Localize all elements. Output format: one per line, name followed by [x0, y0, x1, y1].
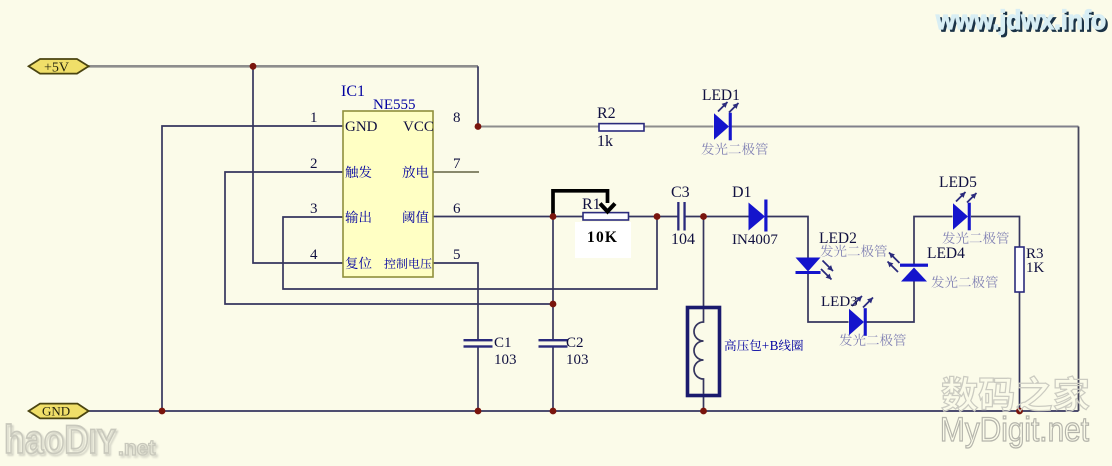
wire node to transformer	[703, 217, 705, 308]
LED4 designator	[927, 245, 965, 262]
svg-text:.net: .net	[118, 437, 155, 460]
pin number 1	[310, 110, 318, 126]
svg-text:7: 7	[453, 156, 461, 172]
svg-text:103: 103	[566, 352, 589, 368]
transformer high voltage coil box	[688, 308, 720, 396]
pin stub 7 discharge (unconnected)	[433, 171, 479, 173]
junction node J7	[159, 408, 166, 415]
pin label output	[345, 211, 371, 224]
LED LED5 symbol with arrows	[953, 192, 977, 230]
LED4 chinese label	[931, 276, 998, 289]
R2 designator	[597, 105, 616, 122]
D1 value IN4007	[732, 232, 778, 248]
C2 designator	[566, 335, 584, 351]
junction node J2	[475, 123, 482, 130]
pin number 2	[310, 156, 318, 172]
svg-text:MyDigit.net: MyDigit.net	[940, 411, 1089, 449]
IC1 designator label	[341, 83, 365, 100]
junction node J8	[475, 408, 482, 415]
wire pin1 GND to ground rail	[162, 126, 343, 411]
C3 value 104	[671, 231, 695, 248]
wire pin3 output	[283, 217, 657, 289]
potentiometer R1 body	[583, 213, 629, 220]
svg-text:104: 104	[671, 231, 695, 248]
C1 value 103	[494, 352, 517, 368]
power flag +5V	[29, 59, 89, 76]
pin label reset	[346, 257, 372, 269]
resistor R3 body	[1015, 247, 1024, 292]
pin label threshold	[403, 211, 428, 223]
svg-text:2: 2	[310, 156, 318, 172]
watermark MyDigit.net outline	[940, 411, 1089, 449]
wire pin6 threshold to R1	[433, 216, 583, 218]
svg-text:103: 103	[494, 352, 517, 368]
C2 value 103	[566, 352, 589, 368]
R3 value 1K	[1026, 260, 1045, 276]
NE555 part label	[373, 97, 416, 113]
LED LED3 symbol with arrows	[849, 296, 873, 336]
junction node J4	[654, 213, 661, 220]
wire D1 to LED2	[767, 217, 809, 259]
svg-text:5: 5	[453, 247, 461, 263]
svg-text:B: B	[770, 338, 779, 353]
transformer label	[725, 338, 803, 353]
pin label VCC	[403, 119, 434, 135]
svg-text:IC1: IC1	[341, 83, 365, 100]
wire R3 to ground rail	[1019, 292, 1021, 411]
LED2 chinese label	[820, 245, 887, 258]
LED LED2 symbol with arrows	[796, 258, 834, 280]
svg-text:C2: C2	[566, 335, 584, 351]
IC IC1 NE555 timer body	[343, 111, 433, 277]
svg-text:LED4: LED4	[927, 245, 965, 262]
LED3 chinese label	[839, 334, 906, 347]
white patch behind 10K	[575, 222, 631, 258]
svg-text:IN4007: IN4007	[732, 232, 778, 248]
junction node J3	[550, 213, 557, 220]
pin label trigger	[346, 166, 372, 179]
wire pin5 control voltage to C1	[433, 263, 478, 339]
diode D1	[749, 200, 768, 232]
svg-text:VCC: VCC	[403, 119, 434, 135]
watermark shuma zhijia outline	[942, 376, 1089, 412]
capacitor C2 plates	[539, 339, 568, 348]
watermark haoDIY.net outline	[4, 418, 155, 462]
pin number 5	[453, 247, 461, 263]
LED LED4 symbol with arrows	[888, 253, 929, 282]
R1 designator	[582, 196, 601, 213]
wire pin2 trigger	[225, 172, 553, 304]
wire ground rail	[88, 410, 1079, 412]
svg-text:GND: GND	[345, 119, 378, 135]
capacitor C3 plates	[677, 202, 686, 231]
LED LED1 symbol with arrows	[714, 102, 739, 140]
wire LED5 to R3	[971, 217, 1020, 248]
LED1 designator	[702, 87, 740, 104]
svg-text:R1: R1	[582, 196, 601, 213]
pin label GND	[345, 119, 378, 135]
D1 designator	[732, 184, 752, 201]
svg-text:C1: C1	[494, 335, 512, 351]
LED3 designator	[821, 294, 858, 310]
svg-text:R2: R2	[597, 105, 616, 122]
junction node J6	[550, 301, 557, 308]
junction node J1	[250, 63, 257, 70]
wire LED1 row to right edge	[732, 126, 1079, 128]
svg-text:3: 3	[310, 201, 318, 217]
svg-text:1k: 1k	[597, 133, 613, 150]
junction node J11	[1016, 408, 1023, 415]
svg-text:haoDIY: haoDIY	[4, 418, 116, 462]
wire LED2 to LED3	[808, 274, 849, 322]
LED5 chinese label	[942, 232, 1009, 245]
wire R1 to C3	[629, 216, 678, 218]
resistor R2 body	[599, 124, 644, 131]
R1 wiper thick bracket with arrow	[553, 191, 615, 217]
junction node J10	[700, 408, 707, 415]
svg-text:GND: GND	[42, 404, 70, 419]
junction node J5	[700, 213, 707, 220]
watermark www.jdwx.info	[935, 5, 1108, 37]
pin label discharge	[403, 166, 429, 178]
R1 value 10K	[587, 229, 618, 246]
svg-text:1: 1	[310, 110, 318, 126]
wire C2 to ground rail	[552, 347, 554, 411]
wire right edge down to ground rail	[1078, 127, 1080, 412]
pin number 4	[310, 247, 318, 263]
wire +5V down to pin 8	[477, 66, 479, 126]
LED2 designator	[819, 230, 857, 247]
svg-text:1K: 1K	[1026, 260, 1045, 276]
svg-text:NE555: NE555	[373, 97, 416, 113]
pin number 6	[453, 201, 461, 217]
svg-text:www.jdwx.info: www.jdwx.info	[935, 5, 1106, 35]
pin number 3	[310, 201, 318, 217]
C1 designator	[494, 335, 512, 351]
wire LED4 to LED5	[914, 217, 953, 265]
svg-text:6: 6	[453, 201, 461, 217]
wire +5V rail	[88, 65, 478, 68]
svg-text:C3: C3	[671, 184, 690, 201]
svg-text:4: 4	[310, 247, 318, 263]
pin number 8	[453, 110, 461, 126]
wire LED3 to LED4	[867, 281, 915, 322]
capacitor C1 plates	[464, 339, 493, 348]
LED1 chinese label	[701, 143, 768, 156]
wire pin4 reset to +5V rail	[253, 66, 343, 263]
svg-text:10K: 10K	[587, 229, 618, 246]
svg-text:D1: D1	[732, 184, 752, 201]
svg-text:+: +	[762, 338, 769, 353]
wire transformer to ground rail	[703, 396, 705, 411]
svg-text:LED5: LED5	[939, 174, 977, 191]
svg-text:LED2: LED2	[819, 230, 857, 247]
LED5 designator	[939, 174, 977, 191]
R3 designator	[1026, 246, 1044, 262]
C3 designator	[671, 184, 690, 201]
wire R1 junction down to C2	[552, 217, 554, 340]
wire R2 to LED1	[644, 126, 714, 128]
svg-text:LED3: LED3	[821, 294, 858, 310]
wire C3 to D1	[685, 216, 748, 218]
svg-text:+5V: +5V	[44, 61, 69, 76]
pin label control voltage	[384, 258, 431, 269]
svg-text:LED1: LED1	[702, 87, 740, 104]
ground flag GND	[29, 404, 89, 419]
junction node J9	[550, 408, 557, 415]
svg-text:8: 8	[453, 110, 461, 126]
wire pin8 to R2	[478, 126, 599, 128]
wire C1 to ground rail	[477, 347, 479, 411]
pin number 7	[453, 156, 461, 172]
R2 value 1k	[597, 133, 613, 150]
